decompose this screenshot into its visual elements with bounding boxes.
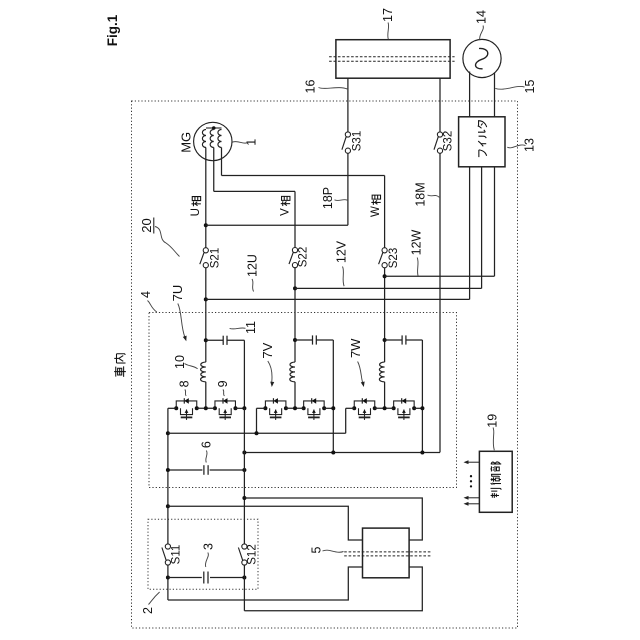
svg-text:MG: MG [178,132,193,153]
battery cell dashed line upper [344,551,431,553]
MOSFET V right [304,401,325,408]
capacitor 11 (U leg) [222,336,224,345]
capacitor 3 [203,572,205,584]
capacitor 6 wire [168,469,203,471]
wire outer loop bottom [244,567,422,611]
junction rail B left [242,451,246,455]
svg-text:S22: S22 [297,247,309,267]
battery cell dashed line lower [344,555,431,557]
wire S11 to cap3 node [167,565,169,600]
wire cap3 left [168,577,202,579]
junction rail A left [166,431,170,435]
junction V midpoint [293,406,297,410]
label shanai (in-vehicle) [114,366,126,377]
wire W cap branch east [406,339,422,341]
wire V charging line 12V [295,287,482,289]
wire W-phase down to S23 [384,176,386,248]
switch S11 [165,544,170,549]
wire U-phase from motor to S21 [205,148,207,248]
svg-text:7W: 7W [348,338,363,358]
switch S21 [203,248,208,253]
wire V cap branch [295,339,312,341]
wire W inductor to midpoint [384,382,386,409]
capacitor (W leg) [401,335,403,344]
wire left bus (positive rail) [167,408,169,544]
wire box17 right lead to S32 [439,78,441,132]
svg-text:12V: 12V [334,240,348,263]
wire V-phase below S22 [294,268,296,362]
svg-text:Fig.1: Fig.1 [105,14,120,46]
wire W-phase from motor down [221,148,223,176]
switch S12 [242,544,247,549]
svg-text:10: 10 [173,355,187,369]
svg-text:18P: 18P [321,187,335,209]
wire U-phase below S21 [205,268,207,362]
svg-text:12U: 12U [246,254,260,277]
motor coil U winding [202,130,206,148]
wire V cap branch east [317,339,334,341]
junction rail B / W bus [420,451,424,455]
wire inner loop bottom [168,567,363,600]
wire V rail [257,407,266,409]
svg-text:14: 14 [475,10,489,24]
junction U midpoint [204,406,208,410]
wire rail A [168,432,346,434]
wire W charging line 12W [385,275,495,277]
svg-text:S23: S23 [388,248,400,268]
wire U inductor to midpoint [205,382,207,409]
svg-text:S31: S31 [352,131,364,151]
wire AC left lead [469,72,471,117]
svg-text:15: 15 [523,80,537,94]
svg-text:8: 8 [178,380,192,387]
AC source tilde [476,48,488,68]
wire right bus (second rail) [243,408,245,544]
capacitor 6 [203,465,205,475]
wire V-phase from motor down [213,148,215,192]
wire 18M from S32 down [439,153,441,452]
outer dashed box vehicle boundary (shanai) [132,101,518,628]
wire filter mid lead down [481,167,483,289]
wire outer loop top [244,498,422,540]
filter box (firuta) [459,117,505,167]
wire 18P horizontal [206,224,348,226]
wire inner loop top [168,506,363,540]
junction W cap branch [383,338,387,342]
svg-text:7V: 7V [260,342,275,358]
wire W rail [346,407,355,409]
junction W right bus [420,406,424,410]
junction U-phase / 18P [204,223,208,227]
wire U charging line 12U [206,298,470,300]
junction W charge line [383,274,387,278]
AC source 14 circle [463,39,501,77]
svg-text:1: 1 [245,139,259,146]
wire W-phase horizontal [222,175,385,177]
control signal arrow 2 [467,497,480,499]
junction U charge line [204,297,208,301]
junction neutral point [212,126,216,130]
svg-text:U: U [190,208,202,216]
wire filter right lead down [494,167,496,276]
junction S12 wire / outer loop top [242,496,246,500]
wire W left riser [345,408,347,433]
junction rail A / V riser [255,431,259,435]
svg-text:20: 20 [139,218,154,232]
svg-text:5: 5 [310,546,324,553]
wire V inductor to midpoint [294,382,296,409]
motor coil W winding [218,130,222,148]
svg-text:6: 6 [199,441,213,448]
switch S22 [292,248,297,253]
control signal dots [470,475,472,477]
inductor (V leg) [290,362,295,382]
svg-text:3: 3 [201,543,215,550]
charging inlet box 17 [336,40,450,78]
inlet dashed conductor lower [329,60,455,62]
wire box17 left lead to S31 [347,78,349,132]
MOSFET 9 (U right) [215,401,236,408]
wire U right bus down [243,340,245,408]
motor coil V winding [210,130,214,148]
MOSFET W left [354,401,375,408]
svg-text:W: W [370,206,382,217]
svg-text:S12: S12 [247,544,259,564]
MOSFET W right [394,401,415,408]
svg-text:S11: S11 [170,545,182,565]
capacitor (V leg) [312,335,314,344]
wire V right bus down [332,340,334,453]
junction U cap branch [204,338,208,342]
wire filter left lead down [469,167,471,300]
control unit box (seigyobu) [479,451,512,512]
wire S12 to outer loop bottom [243,565,245,611]
wire cap3 right [210,577,244,579]
svg-text:S21: S21 [210,248,222,268]
wire W cap branch [385,339,402,341]
junction cap3 right [242,576,246,580]
inductor (W leg) [379,362,384,382]
svg-text:V: V [280,208,292,216]
wire U rail [168,407,176,409]
inductor 10 (U leg) [201,362,206,382]
junction S11 wire / inner loop top [166,504,170,508]
junction V right bus [331,406,335,410]
MOSFET V left [265,401,286,408]
junction cap6 left [166,468,170,472]
switch S31 [345,132,350,137]
wire AC right lead [494,73,496,117]
SMR dashed box 2 [148,519,258,589]
svg-text:9: 9 [216,380,230,387]
wire W right bus down [421,340,423,453]
svg-text:12W: 12W [409,229,423,255]
svg-text:18M: 18M [413,182,427,206]
wire U cap branch [206,339,223,341]
junction U right bus [242,406,246,410]
switch S32 [437,132,442,137]
wire rail B [244,452,440,454]
wire V left riser [256,408,258,433]
junction cap3 left [166,576,170,580]
junction cap6 right [242,468,246,472]
svg-text:7U: 7U [170,285,185,302]
svg-text:4: 4 [139,291,153,298]
junction W midpoint [383,406,387,410]
motor MG circle [194,122,232,160]
junction rail B / V bus [331,451,335,455]
wire V-phase down to S22 [294,191,296,247]
control signal arrow 3 [467,503,480,505]
junction V cap branch [293,338,297,342]
svg-text:19: 19 [486,414,500,428]
svg-text:17: 17 [381,8,395,22]
junction V charge line [293,286,297,290]
switch S23 [382,248,387,253]
battery box 5 [363,528,410,578]
MOSFET 8 (U low-side left) [176,401,197,408]
motor winding top bar [206,127,222,129]
wire W-phase below S23 [384,268,386,362]
wire V-phase horizontal [214,190,295,192]
svg-text:S32: S32 [443,131,455,151]
svg-text:2: 2 [141,607,155,614]
wire 18P vertical to S31 [347,153,349,225]
svg-text:11: 11 [244,321,258,334]
control signal arrow 1 [467,461,480,463]
inlet dashed conductor upper [329,56,455,58]
wire U cap branch east [227,339,244,341]
svg-text:16: 16 [303,80,317,94]
inverter unit dashed box 4 [149,313,457,488]
